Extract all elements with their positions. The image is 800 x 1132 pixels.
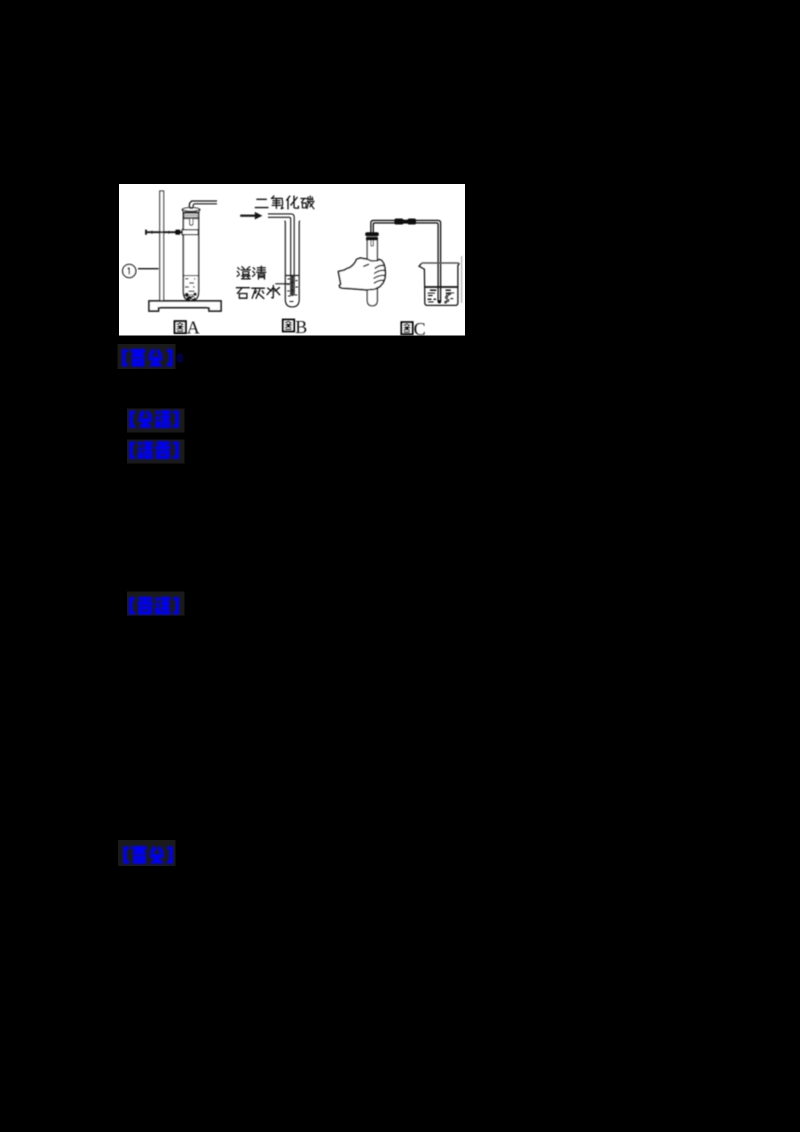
faint smear after label 1 [176, 353, 183, 363]
bubbles and ticks in B [287, 279, 298, 302]
finger lines [364, 264, 385, 283]
beaker liquid dashes right and bubbles [446, 290, 455, 298]
answer label 2: da-an [123, 846, 172, 864]
clamp knob [175, 230, 180, 235]
faint scan line right of beaker [461, 256, 463, 303]
liquid surface B [285, 275, 299, 277]
clamp arm [146, 230, 184, 235]
pipe tip bubble [438, 300, 441, 303]
delivery tube A (bent) [189, 201, 217, 210]
rubber connector [394, 219, 403, 225]
iron stand rod [160, 191, 164, 302]
connecting pipe C [371, 220, 441, 302]
figure B caption: tu icon [283, 320, 294, 332]
inner tube dark segment in liquid [291, 276, 293, 296]
stopper A top ellipse [183, 208, 199, 212]
label: shi hui shui [237, 288, 250, 299]
inner tube below stopper C [371, 240, 373, 246]
test tube A liquid surface [183, 275, 198, 277]
test tube B [285, 221, 300, 307]
arrow [240, 215, 255, 217]
figure C caption: tu icon [401, 322, 412, 334]
delivery tube into B [268, 214, 294, 296]
stopper C [365, 232, 379, 236]
glass tube below stopper A [190, 219, 193, 225]
iron stand base [149, 301, 221, 311]
stopper A body [182, 209, 200, 218]
keypoint label highlight box [127, 592, 185, 616]
figure A caption: tu icon [175, 321, 186, 333]
figure image white box [119, 184, 465, 336]
test tube C [367, 240, 377, 305]
svg-text:A: A [187, 318, 200, 338]
keypoint label: dian-jing [129, 597, 179, 615]
analysis label highlight box [127, 409, 185, 433]
label circle 1 [123, 264, 136, 277]
test tube A rim clamp band [182, 230, 198, 235]
beaker liquid dashes left [428, 290, 437, 302]
label CO2: er yang hua tan [255, 199, 267, 207]
test tube A bubbles [185, 279, 195, 291]
glass tube mark through stopper top [190, 208, 193, 210]
answer label 1 highlight box [118, 344, 176, 369]
test tube A body [183, 210, 198, 301]
leader line to limewater [275, 283, 290, 285]
hand holding tube [338, 258, 385, 290]
svg-text:C: C [414, 319, 426, 339]
beaker liquid surface [425, 286, 458, 288]
analysis label: fen-xi [129, 410, 178, 428]
answer label 1: da-an [122, 349, 173, 367]
beaker rim [422, 262, 459, 264]
detail label: xiang-jie [129, 441, 178, 459]
stopper A shading bands [183, 212, 200, 214]
answer label 2 highlight box [118, 840, 176, 866]
beaker body [419, 263, 460, 305]
detail label highlight box [127, 440, 185, 464]
clamp tick marks [152, 231, 169, 234]
label: cheng qing [237, 267, 250, 279]
svg-text:B: B [295, 317, 307, 337]
leader line from circle 1 [138, 268, 159, 270]
